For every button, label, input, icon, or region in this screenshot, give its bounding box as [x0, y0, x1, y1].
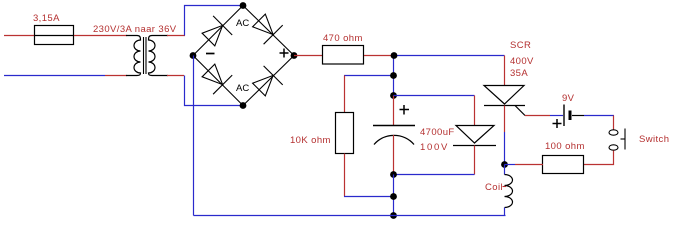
- svg-text:AC: AC: [236, 83, 249, 94]
- svg-text:35A: 35A: [510, 68, 528, 79]
- node C cap top junction: [390, 92, 397, 99]
- label plus: [280, 49, 289, 58]
- wire coil bottom blue: [504, 208, 506, 216]
- wire SCR cathode blue: [504, 132, 506, 165]
- wire gate blue segment: [550, 115, 563, 117]
- svg-text:470 ohm: 470 ohm: [323, 33, 363, 44]
- node bridge right: [291, 52, 298, 59]
- wire 10K bottom lead red: [344, 154, 346, 197]
- wire node C to D5 blue: [394, 95, 475, 97]
- inductor L1 coil: [505, 175, 513, 208]
- wire coil top blue stub: [504, 165, 506, 175]
- svg-text:SCR: SCR: [510, 40, 531, 51]
- diode D4 bottom-right: [253, 66, 283, 96]
- node F bottom rail: [390, 212, 397, 219]
- switch S1 contacts: [609, 129, 625, 151]
- diode D1 top-left: [202, 16, 232, 46]
- wire SCR anode red: [504, 56, 506, 86]
- wire secondary bottom red: [167, 75, 184, 77]
- wire cap top lead red: [393, 96, 395, 126]
- node B: [390, 72, 397, 79]
- resistor R2 10K ohm: [336, 113, 354, 154]
- node bridge top: [240, 2, 247, 9]
- diode D3 bottom-left: [202, 64, 232, 94]
- wire R3 left blue stub: [505, 164, 516, 166]
- wire switch top lead red: [613, 116, 615, 131]
- node bridge bottom: [240, 102, 247, 109]
- wire 10K bottom blue: [344, 196, 394, 198]
- wire D5 to node D blue: [394, 174, 475, 176]
- node E: [390, 193, 397, 200]
- wire cap bottom lead red: [393, 135, 395, 175]
- wire 10K top lead red: [344, 76, 346, 113]
- wire bottom rail blue: [194, 215, 506, 217]
- wire mains top red: [4, 35, 34, 37]
- wire gate red: [525, 115, 550, 117]
- svg-text:Coil: Coil: [485, 182, 503, 193]
- svg-text:Switch: Switch: [639, 134, 669, 145]
- resistor R3 100 ohm: [543, 156, 584, 174]
- wire mains bottom blue: [4, 75, 105, 77]
- wire battery right black: [572, 115, 584, 117]
- capacitor C1 bottom plate: [374, 135, 414, 144]
- fuse F1 3,15A: [35, 26, 74, 45]
- transformer T1 secondary winding: [149, 36, 169, 76]
- svg-text:100V: 100V: [420, 142, 449, 153]
- label cap plus: [400, 105, 410, 115]
- wire secondary bottom blue down: [185, 76, 244, 106]
- resistor R1 470 ohm: [323, 46, 364, 65]
- svg-text:400V: 400V: [510, 56, 534, 67]
- battery B1 9V: [564, 105, 570, 127]
- diode D2 top-right: [253, 14, 283, 44]
- wire 10K top blue: [344, 75, 394, 77]
- transformer T1 primary winding: [126, 36, 141, 76]
- node A: [391, 52, 398, 59]
- wire R1 to node A red: [364, 55, 394, 57]
- node G cathode junction: [501, 161, 508, 168]
- label minus: [206, 53, 215, 55]
- SCR U1: [484, 86, 525, 116]
- svg-text:4700uF: 4700uF: [420, 127, 455, 138]
- wire node A to SCR blue: [394, 55, 505, 57]
- wire node A down blue: [393, 56, 395, 96]
- node D: [390, 171, 397, 178]
- diode D5: [453, 126, 496, 146]
- svg-text:10K ohm: 10K ohm: [290, 135, 331, 146]
- wire SCR cathode red: [504, 106, 506, 133]
- node bridge left: [190, 52, 197, 59]
- wire secondary top blue up: [185, 6, 244, 36]
- svg-text:100 ohm: 100 ohm: [545, 141, 585, 152]
- wire R3 left red: [515, 164, 543, 166]
- wire fuse to transformer red: [74, 35, 127, 37]
- wire bridge+ to R1 red: [294, 55, 323, 57]
- svg-text:230V/3A naar 36V: 230V/3A naar 36V: [93, 24, 177, 35]
- svg-text:AC: AC: [236, 18, 249, 29]
- wire switch bottom lead red: [584, 151, 614, 165]
- wire negative rail vertical blue: [193, 56, 195, 216]
- transformer T1 core: [143, 37, 145, 74]
- label battery plus: [553, 119, 562, 128]
- wire D5 cathode lead red: [474, 146, 476, 175]
- capacitor C1 top plate: [373, 125, 415, 127]
- wire node D down blue: [393, 175, 395, 216]
- wire battery to switch blue: [584, 115, 614, 117]
- wire secondary top red: [167, 35, 185, 37]
- svg-text:3,15A: 3,15A: [33, 13, 60, 24]
- svg-text:9V: 9V: [562, 93, 575, 104]
- label Coil dash: [503, 186, 507, 188]
- bridge rectifier diamond: [193, 6, 294, 106]
- wire mains bottom red segment: [105, 75, 127, 77]
- wire D5 anode lead red: [474, 96, 476, 126]
